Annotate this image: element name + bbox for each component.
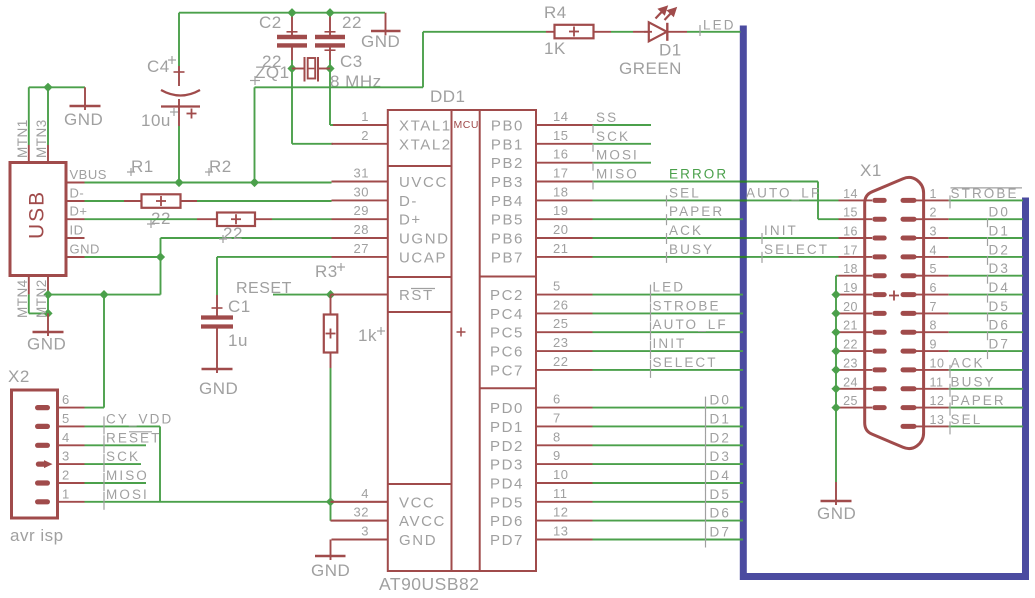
svg-text:AUTO_LF: AUTO_LF — [653, 317, 728, 332]
svg-text:4: 4 — [361, 486, 369, 501]
svg-text:SEL: SEL — [669, 185, 701, 200]
svg-text:D0: D0 — [989, 205, 1010, 220]
svg-text:C4: C4 — [147, 57, 170, 76]
svg-text:XTAL1: XTAL1 — [399, 118, 452, 135]
svg-text:XTAL2: XTAL2 — [399, 136, 452, 153]
svg-text:PD1: PD1 — [490, 419, 524, 436]
svg-text:PB6: PB6 — [491, 231, 524, 248]
svg-text:19: 19 — [843, 281, 858, 295]
svg-text:10: 10 — [930, 356, 945, 370]
svg-text:GND: GND — [817, 504, 856, 523]
svg-text:C1: C1 — [228, 297, 251, 316]
svg-text:BUSY: BUSY — [669, 242, 714, 257]
svg-text:PAPER: PAPER — [669, 204, 724, 219]
svg-text:PB0: PB0 — [491, 118, 524, 135]
svg-text:10u: 10u — [141, 111, 171, 130]
svg-text:D1: D1 — [710, 411, 731, 426]
svg-text:31: 31 — [354, 166, 369, 181]
svg-text:21: 21 — [553, 241, 568, 256]
svg-text:PB7: PB7 — [491, 249, 524, 266]
svg-text:C3: C3 — [340, 52, 363, 71]
svg-text:VCC: VCC — [399, 494, 435, 511]
svg-text:GND: GND — [311, 561, 350, 580]
svg-text:PB4: PB4 — [491, 193, 524, 210]
svg-text:D2: D2 — [710, 430, 731, 445]
svg-text:D7: D7 — [989, 337, 1010, 352]
svg-text:14: 14 — [843, 187, 858, 201]
svg-text:PD0: PD0 — [490, 400, 524, 417]
svg-text:ERROR: ERROR — [669, 167, 728, 182]
svg-text:13: 13 — [553, 524, 568, 539]
svg-text:INIT: INIT — [764, 223, 798, 238]
svg-text:C2: C2 — [259, 13, 282, 32]
svg-text:GND: GND — [199, 379, 238, 398]
svg-text:MISO: MISO — [596, 167, 639, 182]
svg-text:MTN3: MTN3 — [34, 119, 49, 158]
svg-text:3: 3 — [930, 225, 937, 239]
svg-text:PD2: PD2 — [490, 438, 524, 455]
svg-text:1K: 1K — [544, 39, 566, 58]
svg-text:SELECT: SELECT — [764, 242, 829, 257]
svg-text:22: 22 — [843, 338, 858, 352]
svg-text:D+: D+ — [399, 212, 422, 229]
svg-text:17: 17 — [843, 243, 858, 257]
svg-text:20: 20 — [553, 222, 568, 237]
svg-text:2: 2 — [361, 128, 369, 143]
svg-text:avr isp: avr isp — [10, 526, 64, 545]
svg-text:9: 9 — [930, 338, 937, 352]
svg-text:9: 9 — [553, 448, 561, 463]
svg-text:D6: D6 — [989, 318, 1010, 333]
svg-text:RESET: RESET — [106, 430, 162, 445]
svg-text:23: 23 — [553, 335, 568, 350]
svg-text:D-: D- — [399, 193, 418, 210]
svg-text:STROBE: STROBE — [653, 298, 721, 313]
svg-text:12: 12 — [930, 394, 945, 408]
svg-text:ACK: ACK — [951, 355, 985, 370]
svg-text:UVCC: UVCC — [399, 174, 448, 191]
svg-text:PC4: PC4 — [490, 306, 524, 323]
svg-text:X1: X1 — [860, 161, 882, 180]
svg-text:D3: D3 — [989, 261, 1010, 276]
svg-text:D5: D5 — [710, 487, 731, 502]
svg-text:PC7: PC7 — [490, 362, 524, 379]
svg-text:18: 18 — [553, 184, 568, 199]
svg-text:16: 16 — [843, 225, 858, 239]
svg-text:PD7: PD7 — [490, 532, 524, 549]
svg-text:15: 15 — [843, 206, 858, 220]
svg-text:R3: R3 — [315, 262, 338, 281]
svg-text:MTN2: MTN2 — [34, 279, 49, 318]
svg-text:PD6: PD6 — [490, 513, 524, 530]
svg-text:6: 6 — [62, 392, 70, 407]
svg-text:ID: ID — [70, 223, 84, 238]
svg-text:18: 18 — [843, 262, 858, 276]
svg-text:21: 21 — [843, 319, 858, 333]
svg-text:AVCC: AVCC — [399, 513, 446, 530]
svg-text:29: 29 — [354, 203, 369, 218]
svg-text:1: 1 — [62, 486, 70, 501]
svg-text:D1: D1 — [989, 224, 1010, 239]
svg-text:PC2: PC2 — [490, 287, 524, 304]
svg-text:SELECT: SELECT — [653, 355, 718, 370]
svg-text:GND: GND — [64, 110, 103, 129]
svg-text:24: 24 — [843, 375, 858, 389]
svg-text:PB2: PB2 — [491, 155, 524, 172]
svg-text:5: 5 — [553, 279, 561, 294]
svg-text:30: 30 — [354, 184, 369, 199]
svg-text:UCAP: UCAP — [399, 249, 447, 266]
svg-text:16: 16 — [553, 147, 568, 162]
svg-text:D-: D- — [70, 186, 85, 201]
svg-text:6: 6 — [930, 281, 937, 295]
svg-text:D7: D7 — [710, 525, 731, 540]
svg-text:CY_VDD: CY_VDD — [106, 411, 173, 426]
svg-text:3: 3 — [361, 524, 369, 539]
svg-text:25: 25 — [553, 316, 568, 331]
svg-text:1: 1 — [361, 109, 369, 124]
svg-text:25: 25 — [843, 394, 858, 408]
svg-text:2: 2 — [930, 206, 937, 220]
svg-text:2: 2 — [62, 468, 70, 483]
svg-text:GREEN: GREEN — [619, 59, 682, 78]
svg-text:7: 7 — [553, 410, 561, 425]
svg-text:ACK: ACK — [669, 223, 703, 238]
svg-text:MTN1: MTN1 — [15, 119, 30, 158]
svg-text:USB: USB — [26, 190, 49, 239]
svg-text:MTN4: MTN4 — [15, 279, 30, 318]
svg-text:D+: D+ — [70, 204, 88, 219]
svg-text:RST: RST — [399, 287, 434, 304]
svg-text:11: 11 — [930, 375, 944, 389]
svg-text:8: 8 — [930, 319, 937, 333]
svg-text:SS: SS — [596, 110, 618, 125]
svg-text:4: 4 — [62, 430, 70, 445]
svg-text:5: 5 — [62, 411, 70, 426]
svg-text:VBUS: VBUS — [70, 167, 107, 182]
svg-text:PD4: PD4 — [490, 476, 524, 493]
svg-text:BUSY: BUSY — [951, 374, 996, 389]
svg-text:MCU: MCU — [454, 119, 479, 131]
svg-text:MOSI: MOSI — [106, 487, 149, 502]
svg-text:28: 28 — [354, 222, 369, 237]
svg-text:10: 10 — [553, 467, 568, 482]
svg-text:D2: D2 — [989, 242, 1010, 257]
svg-text:8: 8 — [553, 429, 561, 444]
svg-text:D5: D5 — [989, 299, 1010, 314]
svg-text:UGND: UGND — [399, 231, 450, 248]
svg-text:GND: GND — [70, 242, 100, 257]
svg-text:14: 14 — [553, 109, 568, 124]
svg-text:R1: R1 — [131, 157, 154, 176]
svg-text:LED: LED — [703, 18, 736, 33]
svg-text:D3: D3 — [710, 449, 731, 464]
svg-text:D1: D1 — [659, 41, 682, 60]
svg-text:5: 5 — [930, 262, 937, 276]
svg-text:GND: GND — [399, 532, 437, 549]
svg-text:D4: D4 — [710, 468, 731, 483]
svg-text:R4: R4 — [544, 3, 567, 22]
svg-text:PB5: PB5 — [491, 212, 524, 229]
svg-text:26: 26 — [553, 297, 568, 312]
svg-text:1: 1 — [930, 187, 937, 201]
svg-text:27: 27 — [354, 241, 369, 256]
svg-text:7: 7 — [930, 300, 937, 314]
svg-text:PD3: PD3 — [490, 457, 524, 474]
svg-text:X2: X2 — [8, 367, 30, 386]
svg-text:22: 22 — [553, 354, 568, 369]
svg-text:PD5: PD5 — [490, 494, 524, 511]
svg-text:20: 20 — [843, 300, 858, 314]
svg-text:22: 22 — [342, 13, 362, 32]
svg-text:GND: GND — [361, 32, 400, 51]
svg-text:15: 15 — [553, 128, 568, 143]
svg-text:23: 23 — [843, 356, 858, 370]
svg-text:SEL: SEL — [951, 412, 983, 427]
svg-text:22: 22 — [223, 224, 243, 243]
svg-text:1u: 1u — [228, 331, 248, 350]
svg-text:GND: GND — [27, 335, 66, 354]
svg-text:R2: R2 — [209, 157, 232, 176]
svg-text:ZQ1: ZQ1 — [255, 63, 290, 82]
svg-text:4: 4 — [930, 243, 937, 257]
svg-text:INIT: INIT — [653, 336, 687, 351]
svg-text:13: 13 — [930, 413, 945, 427]
svg-text:19: 19 — [553, 203, 568, 218]
svg-text:32: 32 — [354, 505, 369, 520]
svg-text:1k: 1k — [358, 326, 377, 345]
svg-text:PB1: PB1 — [491, 136, 524, 153]
svg-text:PB3: PB3 — [491, 174, 524, 191]
svg-text:3: 3 — [62, 449, 70, 464]
svg-text:PAPER: PAPER — [951, 393, 1006, 408]
svg-text:AT90USB82: AT90USB82 — [379, 574, 479, 594]
svg-text:PC5: PC5 — [490, 325, 524, 342]
svg-text:SCK: SCK — [106, 449, 140, 464]
svg-text:D4: D4 — [989, 280, 1010, 295]
svg-text:AUTO_LF: AUTO_LF — [746, 185, 821, 200]
svg-text:PC6: PC6 — [490, 344, 524, 361]
svg-text:17: 17 — [553, 166, 568, 181]
svg-text:11: 11 — [553, 486, 568, 501]
svg-text:MOSI: MOSI — [596, 148, 639, 163]
svg-text:6: 6 — [553, 392, 561, 407]
svg-text:DD1: DD1 — [430, 87, 466, 106]
svg-text:D0: D0 — [710, 393, 731, 408]
svg-text:D6: D6 — [710, 506, 731, 521]
svg-text:12: 12 — [553, 505, 568, 520]
svg-text:MISO: MISO — [106, 468, 149, 483]
svg-text:SCK: SCK — [596, 129, 630, 144]
svg-text:LED: LED — [653, 280, 686, 295]
